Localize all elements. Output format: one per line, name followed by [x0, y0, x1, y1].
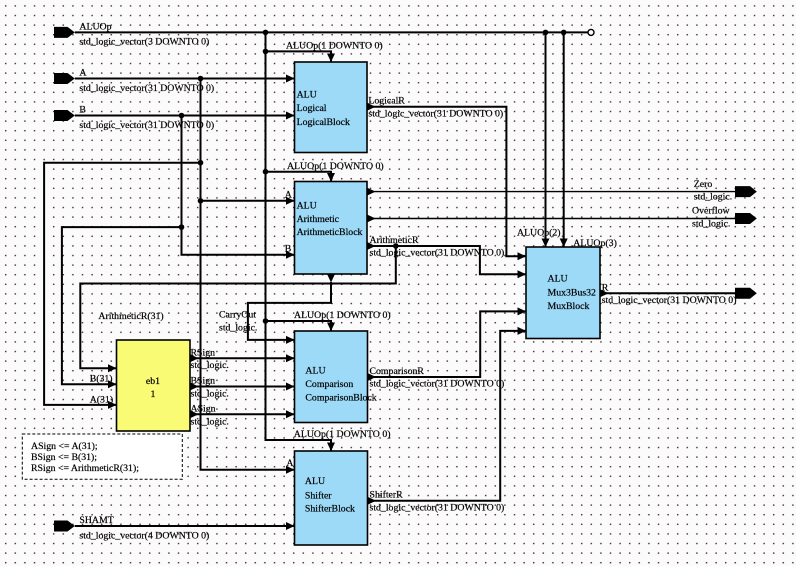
svg-text:Comparison: Comparison — [305, 379, 353, 390]
svg-text:ComparisonR: ComparisonR — [370, 366, 425, 377]
wire R from Mux to port — [600, 289, 735, 297]
wire B branch to eb1 B(31) — [62, 227, 182, 388]
open terminal on ALUOp bus — [588, 29, 594, 35]
wire ALUOp branch to LogicalBlock — [266, 51, 336, 62]
label ALUOp(1 DOWNTO 0) at Shifter — [294, 429, 391, 440]
wire SHAMT to ShifterBlock — [75, 522, 295, 530]
svg-text:A: A — [79, 68, 86, 79]
svg-text:ALUOp(1 DOWNTO 0): ALUOp(1 DOWNTO 0) — [294, 310, 391, 321]
wire ALUOp branch to ComparisonBlock — [266, 321, 336, 331]
junction ArithmeticR / ArithmeticR(31) branch — [393, 243, 399, 249]
svg-text:ArithmeticBlock: ArithmeticBlock — [297, 227, 363, 238]
svg-text:ALUOp(1 DOWNTO 0): ALUOp(1 DOWNTO 0) — [287, 161, 384, 172]
svg-text:std_logic.: std_logic. — [191, 389, 229, 400]
block eb1 1 (embedded text) — [117, 340, 191, 431]
svg-text:std_logic_vector(31 DOWNTO 0): std_logic_vector(31 DOWNTO 0) — [370, 379, 505, 390]
port SHAMT (input) — [54, 515, 209, 541]
svg-text:Zero: Zero — [694, 179, 713, 190]
svg-text:ALU: ALU — [297, 90, 317, 101]
label B at Arithmetic input — [285, 243, 292, 254]
label ASign — [191, 403, 229, 427]
label ALUOp(1 DOWNTO 0) at Arithmetic — [287, 161, 384, 172]
wire ArithmeticR to Mux — [367, 242, 526, 278]
wire ALUOp(2) to MuxBlock — [542, 32, 550, 247]
wire LogicalR to Mux — [367, 103, 526, 260]
svg-text:ALU: ALU — [305, 476, 325, 487]
svg-text:std_logic_vector(31 DOWNTO 0): std_logic_vector(31 DOWNTO 0) — [370, 502, 505, 513]
svg-text:std_logic_vector(31 DOWNTO 0): std_logic_vector(31 DOWNTO 0) — [79, 120, 214, 131]
wire ALUOp branch to ArithmeticBlock — [266, 172, 336, 182]
svg-text:B: B — [285, 243, 292, 254]
svg-text:std_logic.: std_logic. — [692, 219, 730, 230]
svg-text:1: 1 — [151, 389, 156, 400]
svg-text:ALUOp: ALUOp — [79, 21, 111, 32]
label A(31) — [90, 394, 113, 405]
wire ALUOp(3) to MuxBlock — [560, 32, 568, 247]
svg-text:ShifterR: ShifterR — [370, 490, 404, 501]
svg-text:RSign: RSign — [191, 347, 216, 358]
wire CarryOut from Arithmetic to Comparison — [248, 274, 335, 344]
junction A trunk / eb1 branch — [198, 160, 204, 166]
label LogicalR — [368, 96, 503, 120]
port Zero (output) — [694, 179, 757, 203]
svg-text:B: B — [79, 105, 86, 116]
junction ALUOp trunk / Arithmetic branch — [263, 169, 269, 175]
svg-text:LogicalBlock: LogicalBlock — [297, 117, 350, 128]
label ALUOp(1 DOWNTO 0) at Logical — [286, 40, 383, 51]
label ArithmeticR — [370, 235, 505, 259]
label ALUOp(2) — [517, 228, 561, 239]
junction ALUOp bus / ALUOp(2) — [543, 30, 549, 36]
block U5 ALU Mux3Bus32 MuxBlock — [526, 247, 600, 339]
junction B wire / B trunk — [179, 113, 185, 119]
wire ArithmeticR(31) branch to eb1 — [80, 246, 396, 372]
junction ALUOp trunk / Logical branch — [263, 49, 269, 55]
junction B trunk / eb1 branch — [179, 224, 185, 230]
wire BSign eb1 to Comparison — [190, 383, 295, 391]
wire ALUOp vertical trunk to Shifter — [266, 32, 336, 451]
svg-text:Overflow: Overflow — [692, 206, 730, 217]
wire A branch to eb1 A(31) — [44, 163, 200, 409]
svg-text:Shifter: Shifter — [305, 490, 332, 501]
svg-text:Arithmetic: Arithmetic — [297, 214, 340, 225]
label ALUOp(3) — [573, 238, 617, 249]
svg-text:std_logic_vector(31 DOWNTO 0): std_logic_vector(31 DOWNTO 0) — [79, 83, 214, 94]
svg-text:ArithmeticR(31): ArithmeticR(31) — [98, 311, 163, 322]
svg-text:ALUOp(1 DOWNTO 0): ALUOp(1 DOWNTO 0) — [294, 429, 391, 440]
svg-text:BSign: BSign — [191, 376, 216, 387]
svg-text:MuxBlock: MuxBlock — [548, 301, 590, 312]
svg-text:ShifterBlock: ShifterBlock — [305, 504, 355, 515]
svg-text:ALU: ALU — [297, 201, 317, 212]
svg-text:RSign <= ArithmeticR(31);: RSign <= ArithmeticR(31); — [31, 463, 139, 474]
port ALUOp (input) — [54, 21, 209, 47]
wire A branch to ArithmeticBlock — [201, 197, 295, 205]
label BSign — [191, 376, 229, 400]
svg-text:ALUOp(3): ALUOp(3) — [573, 238, 617, 249]
svg-text:B(31): B(31) — [90, 374, 113, 385]
svg-text:std_logic_vector(4 DOWNTO 0): std_logic_vector(4 DOWNTO 0) — [79, 530, 209, 541]
svg-text:LogicalR: LogicalR — [368, 96, 405, 107]
svg-text:eb1: eb1 — [146, 376, 160, 387]
label A at Shifter input — [286, 458, 293, 469]
svg-text:std_logic.: std_logic. — [694, 192, 732, 203]
svg-text:Mux3Bus32: Mux3Bus32 — [548, 288, 597, 299]
label B(31) — [90, 374, 113, 385]
wire Overflow from Arithmetic to port — [367, 215, 735, 223]
wire ALUOp horizontal bus — [75, 31, 588, 33]
wire ASign eb1 to Comparison — [190, 410, 295, 418]
text box ASign/BSign/RSign assignments — [22, 434, 182, 479]
label ALUOp(1 DOWNTO 0) at Comparison — [294, 310, 391, 321]
port B (input) — [54, 105, 214, 131]
block U4 ALU Shifter ShifterBlock — [295, 451, 368, 545]
label CarryOut — [219, 309, 257, 333]
svg-text:std_logic.: std_logic. — [219, 323, 257, 334]
wire B to LogicalBlock — [75, 112, 295, 120]
svg-text:Logical: Logical — [297, 103, 327, 114]
label ArithmeticR(31) — [98, 311, 163, 322]
svg-text:BSign <= B(31);: BSign <= B(31); — [31, 452, 97, 463]
svg-text:std_logic_vector(3 DOWNTO 0): std_logic_vector(3 DOWNTO 0) — [79, 37, 209, 48]
svg-text:ComparisonBlock: ComparisonBlock — [305, 392, 376, 403]
block U1 ALU Logical LogicalBlock — [295, 62, 368, 153]
junction A trunk / Arithmetic branch — [198, 198, 204, 204]
label A at Arithmetic input — [285, 189, 292, 200]
block U3 ALU Comparison ComparisonBlock — [295, 331, 377, 423]
label ShifterR — [370, 490, 505, 514]
label ComparisonR — [370, 366, 505, 390]
svg-text:std_logic.: std_logic. — [191, 416, 229, 427]
svg-text:SHAMT: SHAMT — [79, 515, 113, 526]
svg-text:ALU: ALU — [305, 365, 325, 376]
block U2 ALU Arithmetic ArithmeticBlock — [295, 182, 368, 275]
wire ComparisonR to Mux — [368, 307, 527, 381]
svg-text:A(31): A(31) — [90, 394, 113, 405]
junction ALUOp bus / vertical trunk — [263, 30, 269, 36]
label RSign — [191, 347, 229, 371]
junction A wire / A trunk — [198, 76, 204, 82]
port R (output) — [602, 282, 757, 305]
junction ALUOp trunk / Comparison branch — [263, 318, 269, 324]
svg-text:ALUOp(2): ALUOp(2) — [517, 228, 561, 239]
svg-text:CarryOut: CarryOut — [219, 309, 256, 320]
wire ShifterR to Mux — [368, 327, 527, 505]
svg-text:ALU: ALU — [548, 274, 568, 285]
svg-text:std_logic_vector(31 DOWNTO 0): std_logic_vector(31 DOWNTO 0) — [602, 295, 737, 306]
svg-text:ALUOp(1 DOWNTO 0): ALUOp(1 DOWNTO 0) — [286, 40, 383, 51]
svg-text:A: A — [286, 458, 293, 469]
wire B vertical trunk to ArithmeticBlock — [182, 116, 295, 259]
svg-text:std_logic.: std_logic. — [191, 360, 229, 371]
port Overflow (output) — [692, 206, 757, 230]
port A (input) — [54, 68, 214, 94]
junction ALUOp bus / ALUOp(3) — [561, 30, 567, 36]
wire RSign eb1 to Comparison — [190, 354, 295, 362]
wire A to LogicalBlock — [75, 75, 295, 83]
svg-text:ASign <= A(31);: ASign <= A(31); — [31, 441, 98, 452]
wire Zero from Arithmetic to port — [367, 188, 735, 196]
svg-text:A: A — [285, 189, 292, 200]
svg-text:std_logic_vector(31 DOWNTO 0): std_logic_vector(31 DOWNTO 0) — [370, 248, 505, 259]
svg-text:std_logic_vector(31 DOWNTO 0): std_logic_vector(31 DOWNTO 0) — [368, 108, 503, 119]
wire A vertical trunk to Shifter — [201, 79, 295, 474]
svg-text:ASign: ASign — [191, 403, 216, 414]
